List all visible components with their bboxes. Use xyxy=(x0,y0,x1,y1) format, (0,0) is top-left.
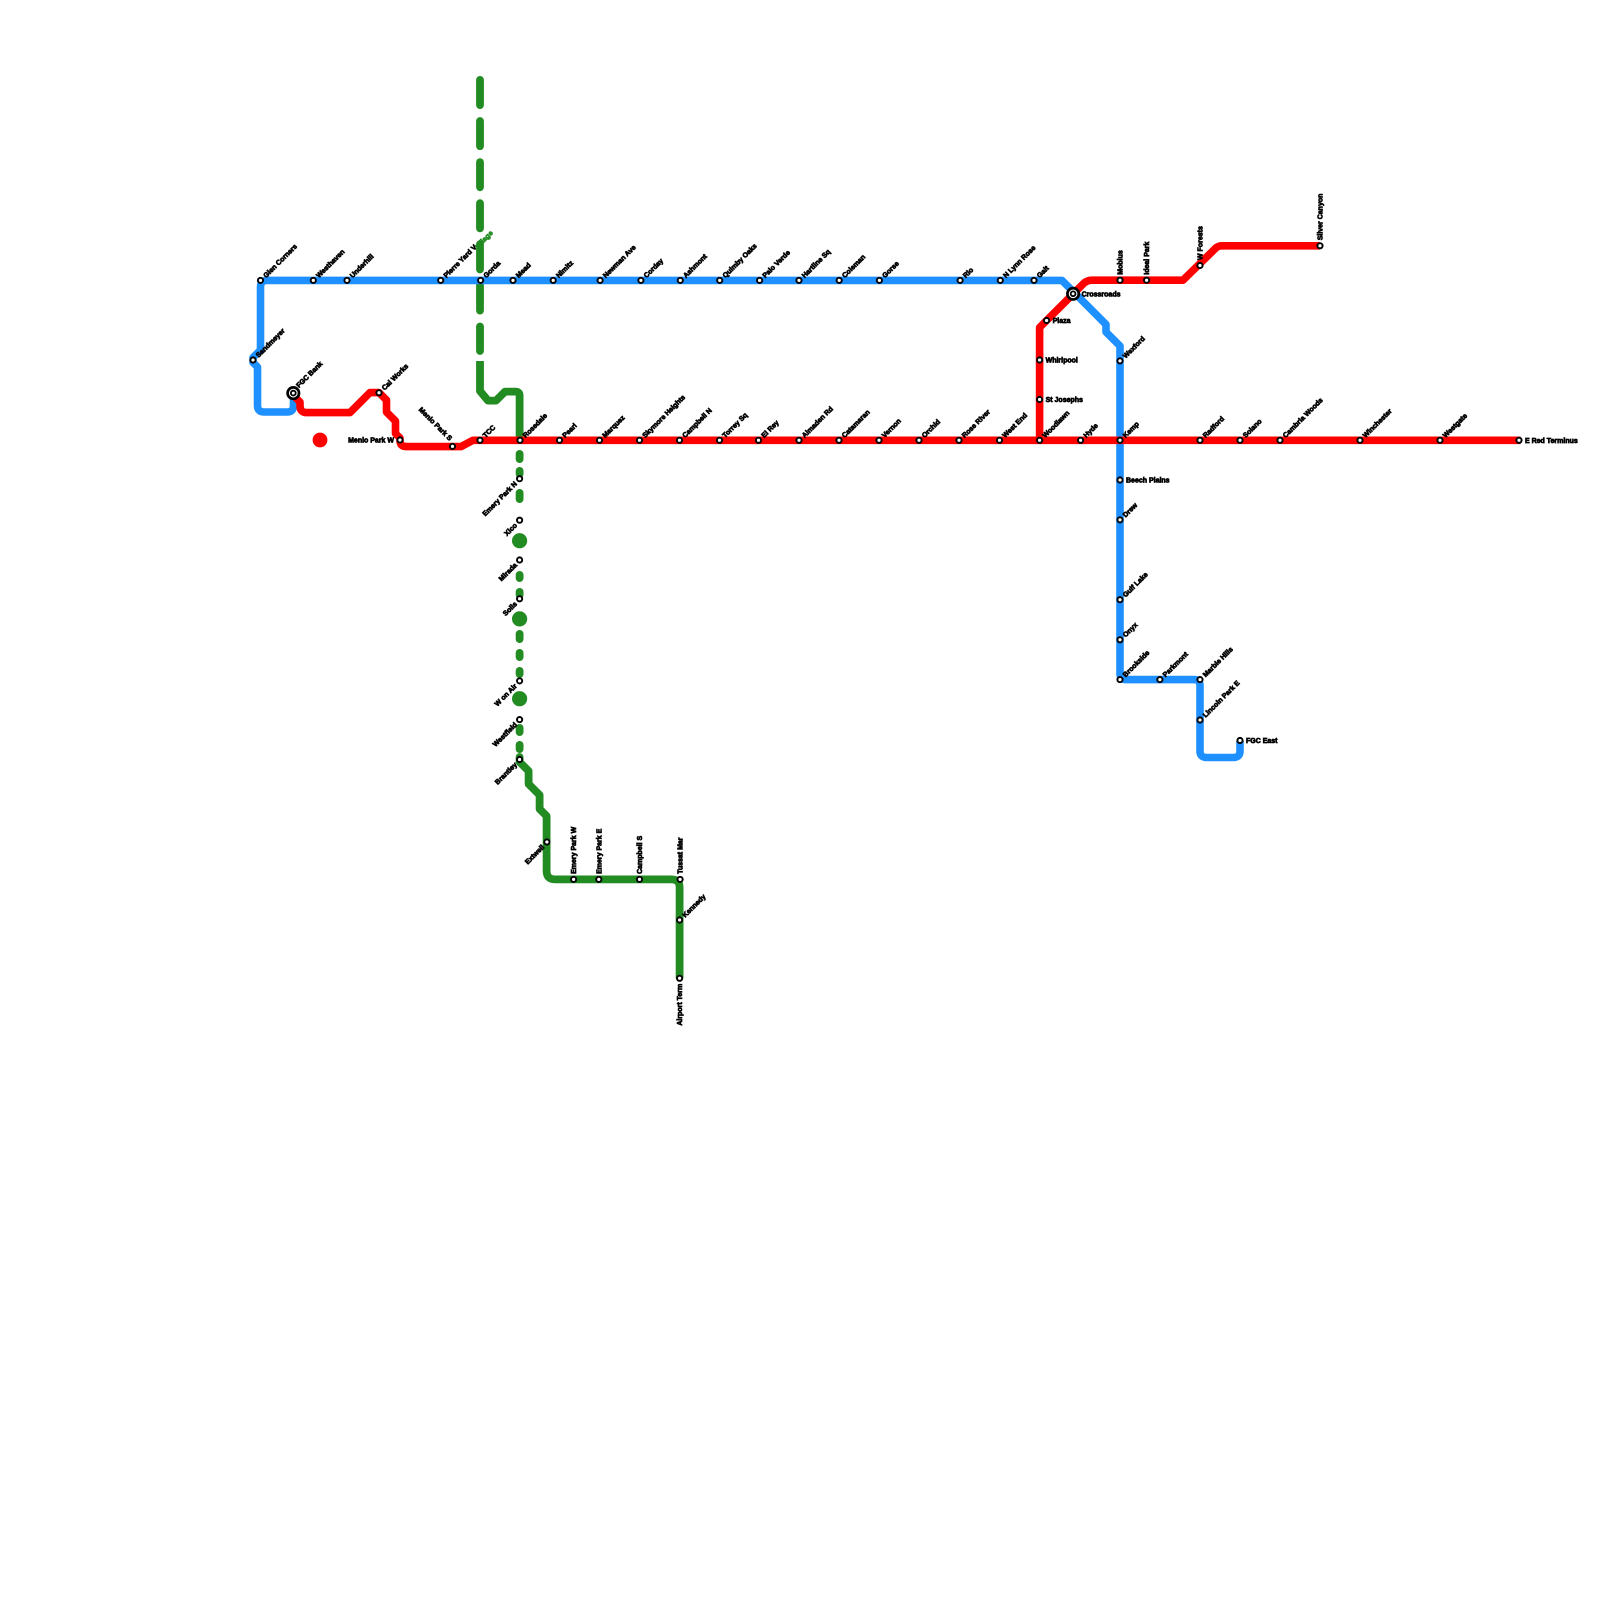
station FGC East xyxy=(1237,738,1242,743)
station Mobius xyxy=(1117,278,1122,283)
svg-text:Underhill: Underhill xyxy=(349,253,375,279)
svg-text:Lincoln Park E: Lincoln Park E xyxy=(1202,680,1242,720)
station Ideal Park xyxy=(1144,278,1149,283)
station Mirada xyxy=(517,557,522,562)
station Quimby Oaks xyxy=(717,278,722,283)
svg-text:Mirada: Mirada xyxy=(498,562,519,583)
station Woodlawn xyxy=(1037,438,1042,443)
station Airport Term xyxy=(677,976,682,981)
station Kemp xyxy=(1117,438,1122,443)
station Extwell xyxy=(544,839,549,844)
station Pierre Yard xyxy=(438,278,443,283)
svg-text:Woodlawn: Woodlawn xyxy=(1042,410,1072,440)
station Solis xyxy=(517,596,522,601)
station Corday xyxy=(638,278,643,283)
station St Josephs xyxy=(1037,397,1042,402)
interchange FGC Bank xyxy=(288,387,299,398)
station Wexford xyxy=(1117,358,1122,363)
svg-text:Marquez: Marquez xyxy=(602,414,627,439)
station Gulf Lake xyxy=(1117,597,1122,602)
svg-text:FGC East: FGC East xyxy=(1246,738,1278,745)
station E Red Terminus xyxy=(1516,438,1521,443)
svg-text:Crossroads: Crossroads xyxy=(1082,291,1121,298)
station Lincoln Park E xyxy=(1197,717,1202,722)
svg-text:Torrey Sq: Torrey Sq xyxy=(722,412,750,440)
station Glen Corners xyxy=(258,278,263,283)
station Westhaven xyxy=(311,278,316,283)
svg-text:Rosedale: Rosedale xyxy=(522,413,549,440)
station Gorse xyxy=(877,278,882,283)
station Torrey Sq xyxy=(717,438,722,443)
green unbuilt station dot 2 xyxy=(512,611,527,626)
station Coleman xyxy=(837,278,842,283)
station Cambria Woods xyxy=(1277,438,1282,443)
svg-text:West End: West End xyxy=(1002,412,1029,439)
station Solano xyxy=(1237,438,1242,443)
svg-text:Palo Verde: Palo Verde xyxy=(762,249,792,279)
svg-text:Pierre Yard V: Pierre Yard V xyxy=(443,244,479,280)
station El Rey xyxy=(756,438,761,443)
station W Forests xyxy=(1197,263,1202,268)
svg-text:Kennedy: Kennedy xyxy=(682,893,708,919)
station Tussat Mar xyxy=(678,877,683,882)
station Galt xyxy=(1031,278,1036,283)
station Campbell S xyxy=(637,877,642,882)
station Kennedy xyxy=(677,917,682,922)
station Menlo Park W xyxy=(397,437,402,442)
station Marquez xyxy=(597,438,602,443)
svg-text:Ideal Park: Ideal Park xyxy=(1144,242,1151,275)
svg-text:W Forests: W Forests xyxy=(1198,226,1205,260)
station Hartline Sq xyxy=(796,278,801,283)
green line solid south zigzag + airport branch xyxy=(520,757,680,977)
station Menlo Park S xyxy=(450,444,455,449)
svg-text:Brookside: Brookside xyxy=(1122,650,1151,679)
svg-text:Onyx: Onyx xyxy=(1122,622,1139,639)
station Brookside xyxy=(1117,677,1122,682)
station Sandmeyer xyxy=(250,357,255,362)
station Catamaran xyxy=(836,438,841,443)
svg-text:Westfield: Westfield xyxy=(492,722,519,749)
station Radford xyxy=(1197,438,1202,443)
svg-text:Radford: Radford xyxy=(1202,416,1226,440)
green line dashed planned segment (north) xyxy=(476,80,484,351)
station Underhill xyxy=(344,278,349,283)
svg-text:Gulf Lake: Gulf Lake xyxy=(1122,571,1150,599)
svg-text:FGC Bank: FGC Bank xyxy=(295,361,324,390)
svg-text:Hartline Sq: Hartline Sq xyxy=(801,249,832,280)
svg-text:Westgate: Westgate xyxy=(1442,413,1469,440)
station Westgate xyxy=(1437,438,1442,443)
svg-text:Winchester: Winchester xyxy=(1362,408,1394,440)
green unbuilt station dot 1 xyxy=(512,533,527,548)
station Brantley xyxy=(517,757,522,762)
green line solid S-bend segment xyxy=(480,361,520,441)
svg-text:Orchid: Orchid xyxy=(921,419,942,440)
station Silver Canyon xyxy=(1317,243,1322,248)
station Vernon xyxy=(876,438,881,443)
svg-text:Quimby Oaks: Quimby Oaks xyxy=(722,243,759,280)
station Westfield xyxy=(517,717,522,722)
red unbuilt station dot xyxy=(313,433,328,448)
station Nimitz xyxy=(551,278,556,283)
svg-text:Drew: Drew xyxy=(1122,502,1139,519)
svg-text:Corday: Corday xyxy=(643,258,665,280)
svg-text:Tussat Mar: Tussat Mar xyxy=(678,837,685,874)
svg-text:Cambria Woods: Cambria Woods xyxy=(1282,397,1325,440)
svg-text:Brantley: Brantley xyxy=(494,762,519,787)
svg-text:Newman Ave: Newman Ave xyxy=(602,244,637,279)
svg-text:Emery Park E: Emery Park E xyxy=(596,828,603,873)
blue line full path xyxy=(253,280,1240,757)
red line main path xyxy=(295,393,1521,447)
station Plaza xyxy=(1044,318,1049,323)
interchange Crossroads xyxy=(1067,288,1078,299)
svg-text:Skymore Heights: Skymore Heights xyxy=(642,394,687,439)
svg-text:Parkmont: Parkmont xyxy=(1162,651,1190,679)
svg-text:Ashmont: Ashmont xyxy=(682,253,709,280)
station Mead xyxy=(510,278,515,283)
svg-text:Westhaven: Westhaven xyxy=(315,249,346,280)
station TCC xyxy=(477,438,482,443)
red line north branch path xyxy=(1040,246,1320,444)
svg-text:Rose River: Rose River xyxy=(961,409,992,440)
svg-text:Campbell N: Campbell N xyxy=(682,407,714,439)
station Emery Park E xyxy=(596,877,601,882)
svg-text:Solano: Solano xyxy=(1242,418,1263,439)
station Drew xyxy=(1117,517,1122,522)
svg-text:Whirlpool: Whirlpool xyxy=(1046,358,1078,365)
station Cal Works xyxy=(376,390,381,395)
station Winchester xyxy=(1357,438,1362,443)
station Rio xyxy=(958,278,963,283)
station N Lynn Rose xyxy=(998,278,1003,283)
svg-text:Emery Park W: Emery Park W xyxy=(571,826,578,873)
svg-text:Mobius: Mobius xyxy=(1118,250,1125,275)
station Gorda xyxy=(478,278,483,283)
station Onyx xyxy=(1117,637,1122,642)
svg-text:St Josephs: St Josephs xyxy=(1046,397,1083,404)
svg-text:Beech Plains: Beech Plains xyxy=(1126,478,1170,485)
station Newman Ave xyxy=(598,278,603,283)
svg-text:Emery Park N: Emery Park N xyxy=(482,481,519,518)
svg-text:Silver Canyon: Silver Canyon xyxy=(1318,194,1325,241)
svg-text:Airport Term: Airport Term xyxy=(677,984,684,1026)
station W on Air xyxy=(517,678,522,683)
station Beech Plains xyxy=(1117,477,1122,482)
svg-text:N Lynn Rose: N Lynn Rose xyxy=(1002,245,1037,280)
station Ashmont xyxy=(678,278,683,283)
station Whirlpool xyxy=(1037,357,1042,362)
station Rose River xyxy=(956,438,961,443)
svg-text:Marble Hills: Marble Hills xyxy=(1202,646,1235,679)
station Almaden Rd xyxy=(796,438,801,443)
svg-text:E Red Terminus: E Red Terminus xyxy=(1525,438,1578,445)
station Orchid xyxy=(916,438,921,443)
svg-text:Menlo Park S: Menlo Park S xyxy=(417,406,453,442)
svg-text:Menlo Park W: Menlo Park W xyxy=(348,438,394,445)
svg-text:Glen Corners: Glen Corners xyxy=(263,243,299,279)
svg-text:Plaza: Plaza xyxy=(1053,318,1071,325)
svg-text:Wexford: Wexford xyxy=(1122,336,1147,361)
station Palo Verde xyxy=(757,278,762,283)
svg-text:Almaden Rd: Almaden Rd xyxy=(801,406,835,440)
svg-text:Vernon: Vernon xyxy=(881,418,903,440)
station Rosedale xyxy=(517,438,522,443)
svg-text:Coleman: Coleman xyxy=(841,254,867,280)
green unbuilt station dot 3 xyxy=(512,691,527,706)
green line dotted segment (south of red line) xyxy=(516,454,524,459)
station Xico xyxy=(517,518,522,523)
station Pearl xyxy=(557,438,562,443)
station Parkmont xyxy=(1157,677,1162,682)
station Hyde xyxy=(1078,438,1083,443)
svg-text:Catamaran: Catamaran xyxy=(841,409,872,440)
station Campbell N xyxy=(677,438,682,443)
station Skymore Heights xyxy=(637,438,642,443)
station West End xyxy=(997,438,1002,443)
svg-text:Cal Works: Cal Works xyxy=(381,363,410,392)
station Marble Hills xyxy=(1197,677,1202,682)
station Emery Park N xyxy=(517,476,522,481)
svg-text:Campbell S: Campbell S xyxy=(637,835,644,873)
station Emery Park W xyxy=(571,877,576,882)
